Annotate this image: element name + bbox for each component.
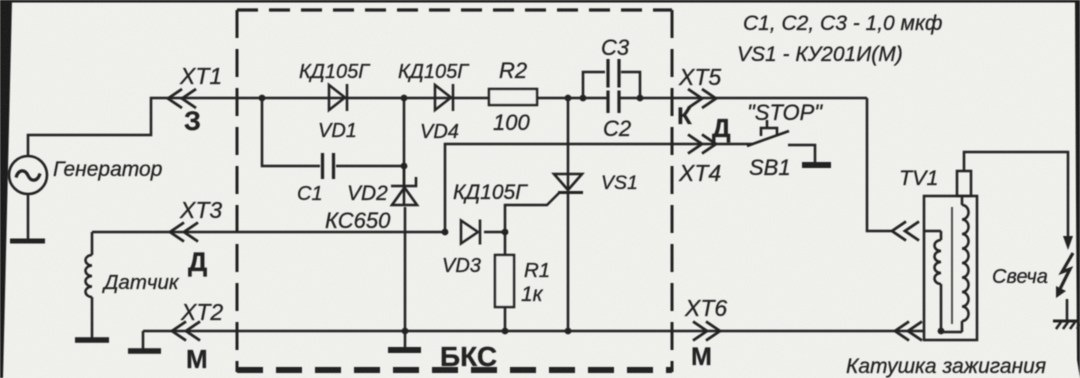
earth ground at spark plug: [1053, 321, 1080, 329]
wire generator to ground: [27, 194, 30, 239]
diode VD1: [329, 84, 347, 111]
label XT1: [179, 63, 222, 89]
label TV1: [899, 166, 938, 190]
ground at XT2: [128, 348, 161, 354]
HV arrowhead: [1063, 236, 1073, 250]
connector coil primary input: [892, 222, 919, 241]
node rail-VS1: [565, 328, 572, 335]
node main-VD2: [401, 95, 408, 102]
label R2: [499, 58, 527, 83]
label SB1: [749, 155, 791, 180]
connector XT1: [168, 89, 196, 108]
wire XT2 stub to ground: [142, 331, 145, 350]
node C3 branch left: [580, 95, 587, 102]
wire VD2 cathode to rail: [404, 207, 407, 331]
wire C3 branch: [583, 72, 640, 98]
label VS1: [601, 172, 638, 194]
label Д (left): [188, 247, 207, 277]
capacitor C1: [323, 153, 334, 179]
wire HV to spark plug: [964, 152, 1068, 237]
left photo edge bar: [0, 0, 12, 378]
dashed enclosure BKS box: [237, 10, 672, 372]
ground under generator: [10, 239, 45, 244]
node main-VS1: [565, 95, 572, 102]
label М (right): [691, 343, 712, 371]
connector XT5: [688, 89, 716, 108]
wire spark to ground: [1066, 299, 1069, 320]
wire C1 branch: [262, 98, 404, 166]
label XT4: [678, 160, 721, 186]
label КС650: [325, 208, 391, 233]
label C3: [601, 35, 630, 60]
ground at SB1: [802, 162, 831, 168]
inductor sensor: [86, 232, 93, 338]
right photo edge bar: [1075, 0, 1080, 378]
note capacitors values: [743, 12, 942, 35]
node C1-VD2: [401, 163, 408, 170]
wire bottom rail: [143, 330, 924, 333]
label XT2: [180, 299, 223, 325]
label XT5: [678, 64, 721, 90]
label Д (right): [712, 113, 731, 143]
spark gap lightning: [1056, 253, 1073, 298]
transformer TV1 box: [924, 196, 977, 340]
label К: [677, 103, 692, 130]
label Датчик: [102, 271, 180, 294]
secondary winding: [941, 196, 969, 332]
label КД105Г (VD4): [398, 61, 470, 83]
resistor R2: [489, 89, 537, 105]
node rail-R1: [502, 328, 509, 335]
zener VD2 КС650: [391, 166, 417, 205]
label 1к: [521, 283, 544, 306]
wire main top line right: [619, 97, 867, 100]
label КД105Г (VD3): [453, 181, 528, 204]
transformer core: [951, 207, 953, 324]
capacitor C3: [608, 59, 619, 88]
node rail-VD2: [402, 328, 409, 335]
label VD4: [420, 121, 459, 143]
node main-C1: [259, 95, 266, 102]
wire gate path: [505, 193, 559, 232]
thyristor VS1: [554, 98, 583, 331]
capacitor C2: [608, 91, 619, 114]
node XT3-VD3: [442, 229, 449, 236]
primary winding: [924, 231, 941, 332]
node C3 branch right: [637, 95, 644, 102]
label R1: [524, 259, 550, 282]
label XT3: [179, 197, 222, 223]
label Свеча: [992, 266, 1048, 288]
connector XT2: [172, 322, 200, 341]
ground under sensor: [75, 337, 109, 343]
connector XT3: [170, 223, 198, 242]
label 100: [493, 110, 530, 135]
wire sensor line: [92, 231, 445, 234]
node coil windings bottom: [938, 328, 945, 335]
diode VD3: [461, 220, 480, 245]
top photo edge line: [0, 0, 1080, 3]
wire main top line left: [161, 97, 607, 100]
generator label: [53, 158, 162, 181]
switch SB1: [747, 120, 815, 162]
connector XT4: [688, 135, 716, 154]
label М (left): [186, 344, 208, 374]
label VD1: [318, 120, 357, 142]
wire VD2 anode: [403, 98, 406, 186]
wire К line to coil: [867, 98, 893, 231]
ground inside BKS: [388, 347, 421, 353]
label STOP: [747, 100, 823, 125]
resistor R1: [495, 232, 514, 331]
label Катушка зажигания: [846, 355, 1046, 378]
label XT6: [684, 295, 727, 321]
generator G: [9, 156, 47, 194]
connector coil bottom input: [895, 322, 922, 341]
wire generator to XT1: [28, 98, 161, 156]
note thyristor type: [737, 43, 903, 66]
connector XT6: [693, 322, 720, 341]
label C1: [297, 183, 323, 205]
HV terminal: [957, 171, 971, 196]
label КД105Г (VD1): [299, 61, 371, 83]
label З: [184, 106, 201, 136]
wire Д line inside box: [445, 144, 753, 232]
label C2: [603, 116, 631, 141]
label VD3: [442, 255, 481, 277]
label БКС: [440, 341, 497, 372]
wire rail to ground stub: [404, 331, 407, 348]
label VD2: [347, 182, 388, 205]
wire VD3 to gate node: [484, 231, 505, 234]
node VD3-R1-gate: [502, 229, 509, 236]
diode VD4: [435, 84, 453, 111]
